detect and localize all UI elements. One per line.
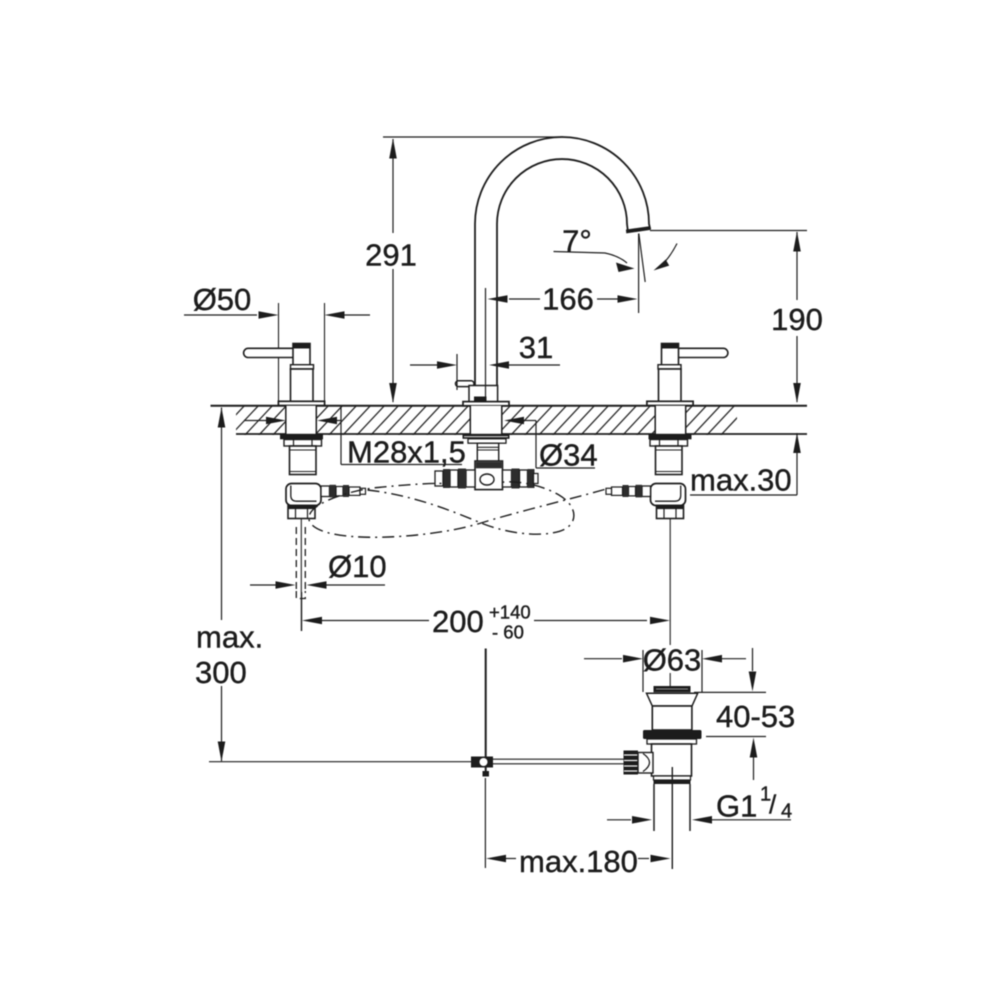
- tee left connector: [466, 470, 475, 487]
- spout washer below counter: [463, 434, 510, 439]
- counter bottom line: [236, 433, 807, 435]
- spout assembly: [435, 137, 651, 490]
- O10 dimension: [250, 584, 276, 586]
- max.300 dimension: [221, 408, 223, 621]
- M28x1,5 leader: [244, 420, 267, 422]
- knob collar: [638, 753, 653, 774]
- horizontal pop-up rod: [493, 758, 624, 760]
- left handle centreline below nut: [300, 519, 302, 632]
- 40-53 dimension: [752, 648, 754, 671]
- elbow: [286, 484, 321, 506]
- vertical lift rod: [485, 649, 487, 758]
- spout base hook: [456, 381, 475, 387]
- svg-text:4: 4: [781, 801, 792, 823]
- spout shank through counter: [471, 406, 501, 434]
- 200 dimension: [302, 617, 322, 625]
- countertop section: [211, 404, 808, 436]
- hose connector fittings: [321, 486, 330, 497]
- collar: [291, 365, 314, 369]
- svg-text:200: 200: [432, 604, 484, 639]
- tailpiece: [653, 784, 655, 831]
- svg-text:Ø34: Ø34: [539, 438, 598, 473]
- bottom collar: [654, 776, 691, 780]
- gasket: [643, 730, 702, 739]
- plug top: [654, 686, 691, 692]
- svg-text:Ø50: Ø50: [193, 282, 252, 317]
- svg-text:40-53: 40-53: [716, 699, 795, 734]
- svg-text:166: 166: [542, 282, 594, 317]
- O34 leader: [504, 417, 524, 425]
- O50 extension lines (behind handle): [279, 303, 325, 401]
- O63 dimension: [584, 658, 622, 660]
- max.180 dimension: [484, 778, 486, 868]
- left handle: [244, 344, 366, 519]
- svg-text:Ø63: Ø63: [643, 643, 702, 678]
- spout tube outer wall: [475, 137, 650, 386]
- tee right connector: [503, 470, 512, 487]
- pop-up waste drain: [471, 649, 702, 870]
- drain body: [652, 744, 692, 776]
- svg-text:- 60: - 60: [492, 622, 524, 643]
- svg-text:max.180: max.180: [519, 844, 638, 879]
- svg-text:Ø10: Ø10: [328, 549, 387, 584]
- spout tube inner wall: [497, 159, 628, 386]
- washer: [647, 739, 697, 744]
- shank through counter: [286, 406, 316, 434]
- svg-text:300: 300: [195, 655, 247, 690]
- pop-up rod hole dashed (O10): [296, 527, 305, 599]
- svg-text:max.: max.: [196, 620, 263, 655]
- valve body below counter: [290, 446, 317, 475]
- locknut: [284, 440, 322, 447]
- handle body: [291, 369, 314, 401]
- spout escutcheon: [463, 402, 509, 406]
- 166 dimension: [485, 288, 487, 397]
- spout base sleeve: [469, 386, 498, 402]
- rod-end fitting: [471, 757, 493, 768]
- max.30 dimension: [796, 433, 798, 495]
- flexible hoses (dash-dot): [309, 482, 605, 537]
- knurled knob: [624, 751, 639, 775]
- 291 dimension: [383, 136, 563, 138]
- svg-text:max.30: max.30: [690, 463, 792, 498]
- spout locknut: [468, 439, 506, 443]
- neck: [652, 706, 692, 730]
- washer: [280, 434, 323, 439]
- spout stem: [477, 443, 498, 461]
- svg-text:G1: G1: [716, 789, 757, 824]
- lever bar: [244, 348, 294, 357]
- G1 1/4 leader: [607, 819, 631, 821]
- svg-text:31: 31: [519, 330, 553, 365]
- svg-text:M28x1,5: M28x1,5: [347, 435, 466, 470]
- svg-text:+140: +140: [489, 602, 531, 623]
- counter top line: [211, 405, 808, 407]
- escutcheon: [278, 401, 324, 405]
- right handle (mirror of left about spout centre): [606, 344, 728, 519]
- O50 dimension: [184, 314, 257, 316]
- svg-text:/: /: [769, 790, 777, 820]
- spout outlet cap: [626, 226, 651, 233]
- svg-text:7°: 7°: [562, 224, 592, 259]
- 31 dimension: [410, 364, 438, 366]
- tee fitting body: [475, 461, 503, 490]
- svg-text:291: 291: [365, 238, 417, 273]
- hatch lines: [216, 404, 750, 436]
- lower nut: [288, 506, 315, 519]
- lever hub: [293, 344, 310, 366]
- 7 degree stream lines: [638, 234, 640, 314]
- svg-text:190: 190: [771, 302, 823, 337]
- 190 dimension: [650, 230, 807, 232]
- flange cone: [647, 693, 698, 706]
- right handle centreline down to drain: [669, 519, 671, 646]
- hose from right valve: [309, 483, 605, 537]
- hose from left valve: [368, 482, 574, 534]
